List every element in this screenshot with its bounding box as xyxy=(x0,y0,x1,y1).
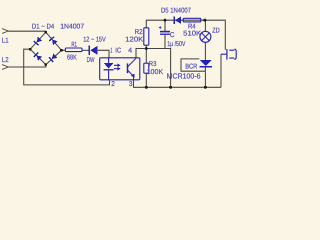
svg-text:L1: L1 xyxy=(2,38,9,45)
svg-text:MCR100-6: MCR100-6 xyxy=(167,71,201,80)
svg-text:68K: 68K xyxy=(67,54,77,61)
svg-text:D5 1N4007: D5 1N4007 xyxy=(161,8,191,15)
svg-text:4: 4 xyxy=(128,48,132,55)
svg-text:2: 2 xyxy=(111,81,115,88)
svg-text:12 ~ 15V: 12 ~ 15V xyxy=(83,36,106,43)
svg-text:100K: 100K xyxy=(147,69,164,76)
svg-text:1N4007: 1N4007 xyxy=(60,24,84,31)
svg-text:R3: R3 xyxy=(149,61,157,68)
svg-text:1: 1 xyxy=(110,47,112,54)
svg-text:C: C xyxy=(170,32,175,39)
svg-text:510K: 510K xyxy=(183,30,201,37)
svg-text:D1 ~ D4: D1 ~ D4 xyxy=(32,24,54,31)
svg-text:BCR: BCR xyxy=(185,63,197,70)
svg-text:1μ /50V: 1μ /50V xyxy=(167,40,185,48)
svg-text:R1: R1 xyxy=(71,42,77,49)
svg-text:120K: 120K xyxy=(125,36,144,43)
svg-text:ZD: ZD xyxy=(212,27,220,34)
svg-text:L2: L2 xyxy=(2,57,9,64)
svg-text:DW: DW xyxy=(87,57,95,64)
svg-text:3: 3 xyxy=(129,81,133,88)
svg-text:R2: R2 xyxy=(135,29,143,36)
svg-text:IC: IC xyxy=(115,47,121,54)
